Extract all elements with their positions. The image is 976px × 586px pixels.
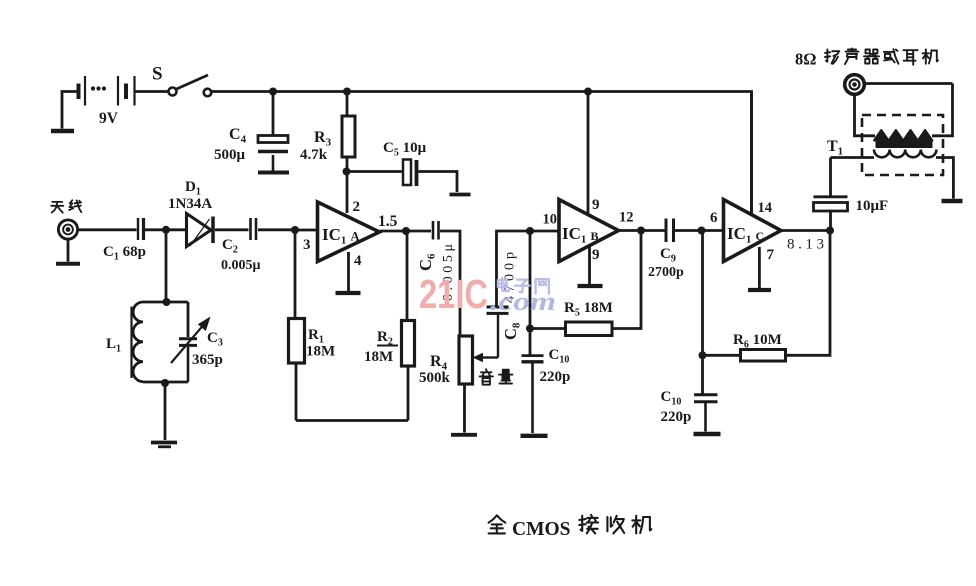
wire: input node down to R5/C10 [529,231,532,355]
node: R3/C5/pin2 [343,168,351,176]
label pin 2 [353,199,361,215]
label pin 6 [710,210,718,226]
capacitor C4 [258,136,288,171]
label 4700p (rotated) [503,252,518,303]
ground (R4) [451,433,477,437]
ground (C5) [450,193,471,197]
resistor R3 [342,116,355,157]
svg-text:C9: C9 [660,246,676,265]
ground (T1 secondary) [942,199,963,203]
label R3 [314,129,332,149]
label yinliang (volume) [480,369,513,384]
label S [152,64,163,85]
svg-text:T1: T1 [827,138,843,158]
svg-text:18M: 18M [364,349,393,365]
svg-text:S: S [152,64,163,85]
svg-text:7: 7 [767,247,775,263]
switch S [169,75,212,96]
label tianxian (antenna) [51,200,81,212]
svg-text:D1: D1 [185,179,201,198]
svg-text:3: 3 [303,237,311,253]
label C5 10u [383,140,427,159]
resistor R4 (pot) [459,336,473,384]
node: IC1B input [526,227,534,235]
wire: R4 to ground [463,384,466,433]
wire: antenna to C1 [77,228,137,231]
svg-text:A: A [351,230,360,244]
label 220p (output) [661,409,692,425]
label 10uF [856,198,889,214]
capacitor C8 [487,307,509,313]
capacitor 10uF [814,197,848,211]
svg-text:21IC: 21IC [419,271,488,317]
svg-text:B: B [591,229,599,243]
label C10 (input) [549,347,570,366]
label 500k [419,370,451,386]
label 9V [99,110,119,127]
wire: T1 secondary left [831,156,875,159]
transformer T1 [862,115,943,175]
wire: R1 to bottom [295,363,298,421]
svg-text:2700p: 2700p [648,265,684,280]
ground (antenna) [56,262,80,266]
wire: IC1C pin14 [750,92,753,217]
wire: 10uF up to T1 [829,158,832,197]
wire: node2 to C5 [347,170,404,173]
resistor R2 [402,321,415,367]
svg-text:C3: C3 [207,330,223,349]
wire: C9 to IC1C [675,229,724,232]
label C3 [207,330,223,349]
wire: R2 up to output node [406,231,409,321]
battery 9V [62,76,169,129]
ground (IC1B pin9) [578,284,603,288]
op-amp IC1B [559,200,619,262]
speaker connector [845,75,865,95]
label pin 3 [303,237,311,253]
wire: speaker to T1 [865,82,953,85]
node A (C1/D1/tank) [162,226,170,234]
label D1 [185,179,201,198]
label IC1C [727,224,764,246]
node: pin12/R5/C9 [637,227,645,235]
wire: 10uF to output node [829,211,832,231]
label 18M (R2) [364,346,398,366]
svg-text:R3: R3 [314,129,332,149]
svg-text:CMOS: CMOS [512,519,571,540]
wire: tank top [143,301,188,304]
capacitor C10 (output) [694,395,718,432]
wire: pin3 node down to R1 [294,230,297,319]
label 0.005u [221,258,261,273]
svg-text:220p: 220p [661,409,692,425]
label 8ohm speaker or earphone [795,49,938,69]
svg-text:18M: 18M [306,344,335,360]
arrow (variable C3) [171,317,211,364]
wire: node to R6 [703,354,741,357]
node: output/10uF/R6 [826,227,834,235]
svg-text:8Ω: 8Ω [795,50,816,69]
svg-text:4.7k: 4.7k [300,147,328,163]
label 500u [214,147,246,163]
wire: wiper to C8 [497,314,499,358]
wire: IC1B pin9 bottom [588,246,591,284]
wire: node2 down to pin 2 [346,172,349,214]
node: tank bottom [161,379,169,387]
svg-text:C8: C8 [501,322,523,340]
ground (IC1A pin4) [336,291,361,295]
label 1N34A [168,196,212,212]
capacitor C5 [403,160,417,187]
label R5 18M [564,300,613,319]
wire: C5 to ground [419,172,458,193]
svg-text:C10: C10 [549,347,570,366]
svg-text:R5 18M: R5 18M [564,300,613,319]
label C8 (rotated) [501,322,523,340]
svg-text:9: 9 [592,247,600,263]
wire: IC1C output [781,229,830,232]
wire: tank bottom [143,381,188,384]
wire: V+ top rail [211,92,751,217]
capacitor C10 (input) [522,356,544,433]
capacitor C3 (variable) [179,339,197,382]
wire: T1 primary right [932,84,953,136]
ground (C10 input) [521,434,548,438]
capacitor C2 [251,218,257,240]
label 0.005u (rotated) [441,244,456,301]
label T1 [827,138,843,158]
svg-text:C5 10μ: C5 10μ [383,140,427,159]
svg-text:220p: 220p [540,369,571,385]
caption: quan CMOS receiver [489,515,652,540]
wire: IC1C pin7 [758,247,761,288]
wire: rail to R3 [346,92,349,117]
op-amp IC1C [724,200,782,262]
svg-text:C1 68p: C1 68p [103,244,146,263]
label 365p [192,352,223,368]
wire: node to IC1A pin3 [295,229,318,232]
node: IC1A out / R2 / C6 [402,227,410,235]
label 18M (R1) [306,344,335,360]
wire: C1 to node A [145,228,166,231]
svg-text:C6: C6 [416,253,438,271]
label C6 (rotated) [416,253,438,271]
wire: D1 to C2 [215,228,249,231]
label 1.5 [378,213,398,230]
node: IC1C input [698,227,706,235]
ground (tank) [151,443,177,447]
svg-text:1.5: 1.5 [378,213,398,230]
ground (IC1C pin7) [748,288,771,292]
label R1 [308,327,324,346]
label pin 7 [767,247,775,263]
label C2 [222,237,238,256]
svg-text:C4: C4 [229,126,247,146]
wire: IC1B pin9 top [587,92,590,217]
wire: IC1A output [380,230,432,233]
label pin 14 [758,200,773,216]
label pin 9 bottom [592,247,600,263]
svg-text:L1: L1 [106,336,121,355]
svg-text:C2: C2 [222,237,238,256]
node: R5 left [526,325,534,333]
label R6 10M [733,332,782,351]
node: rail-pin9 junction [584,88,592,96]
watermark 21IC dianziwang [419,271,556,317]
ground (C10 output) [694,432,721,436]
node: rail-C4 junction [269,88,277,96]
antenna connector [58,220,77,239]
wire: R5 to pin12 node [612,231,641,329]
wire: IC1B output [619,229,665,232]
wire: tank top to C3 [187,302,190,337]
wire: C2 to pin3 node [258,228,295,231]
ground (C4) [258,171,289,175]
svg-text:365p: 365p [192,352,223,368]
label pin 4 [354,253,362,269]
wire: feedback bottom [296,419,408,422]
wire: node down to C10 [701,355,704,393]
wire: R3 to node2 [346,157,349,172]
label R4 [430,353,448,373]
svg-text:500k: 500k [419,370,451,386]
resistor R6 [741,350,786,362]
svg-text:10: 10 [543,212,558,228]
svg-text:2: 2 [353,199,361,215]
capacitor C9 [666,219,674,243]
svg-text:500μ: 500μ [214,147,246,163]
label 220p (input) [540,369,571,385]
wire: pin6 node down [701,231,704,356]
label C10 (output) [661,389,682,408]
node: pin3/R1 [291,226,299,234]
label 2700p [648,265,684,280]
wire: node A to D1 [166,228,187,231]
wire: R6 to output node [786,231,831,356]
svg-text:9V: 9V [99,110,119,127]
wire: C8 up to IC1B input [497,231,560,306]
wire: antenna down [67,239,70,262]
wiper arrow R4 [473,353,499,362]
label 4.7k [300,147,328,163]
diode D1 [187,214,214,247]
label C9 [660,246,676,265]
label C4 [229,126,247,146]
svg-text:10μF: 10μF [856,198,889,214]
capacitor C1 [138,218,144,240]
node: rail-R3 junction [343,88,351,96]
node: tank top [163,298,171,306]
label IC1B [562,224,599,246]
wire: node A down to tank [165,230,168,302]
wire: T1 primary left [855,95,876,136]
svg-text:14: 14 [758,200,773,216]
wire: bottom to R2 [407,366,410,421]
svg-text:4: 4 [354,253,362,269]
label C1 68p [103,244,146,263]
svg-text:12: 12 [619,210,634,226]
wire: C6 to R4 [440,231,460,336]
svg-text:C10: C10 [661,389,682,408]
inductor L1 [132,302,144,382]
svg-text:0.005μ: 0.005μ [221,258,261,273]
label pin 10 [543,212,558,228]
label R2 [377,329,393,348]
wire: T1 secondary right [936,158,953,199]
label 8.13 [787,237,824,253]
wire: rail to C4 [272,92,275,136]
capacitor C6 [433,221,439,240]
ground (battery) [51,129,74,134]
op-amp IC1A [318,202,380,262]
wire: tank to ground [164,383,167,440]
label pin 12 [619,210,634,226]
label L1 [106,336,121,355]
resistor R5 [566,322,613,336]
wire: node to R5 [530,327,566,330]
svg-text:1N34A: 1N34A [168,196,212,212]
wire: IC1A pin4 [347,252,350,291]
resistor R1 [289,319,305,364]
svg-text:R6 10M: R6 10M [733,332,782,351]
svg-text:9: 9 [592,197,600,213]
svg-text:6: 6 [710,210,718,226]
label IC1A [322,225,360,247]
label pin 9 top [592,197,600,213]
svg-text:8.13: 8.13 [787,237,824,253]
node: R6/C10 [699,351,707,359]
svg-text:C: C [756,229,765,243]
svg-text:.com: .com [490,287,556,316]
